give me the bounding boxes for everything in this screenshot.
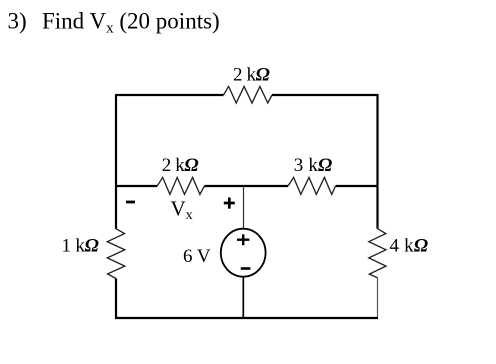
resistor R right 4k zigzag	[369, 229, 386, 278]
minus sign Vx polarity	[126, 201, 135, 204]
svg-text:2 kΩ: 2 kΩ	[162, 155, 199, 176]
resistor R mid-left 2k zigzag	[157, 177, 204, 194]
svg-text:Find Vx (20 points): Find Vx (20 points)	[42, 9, 220, 37]
svg-text:2 kΩ: 2 kΩ	[233, 64, 270, 85]
minus sign inside source	[241, 267, 251, 270]
svg-text:4 kΩ: 4 kΩ	[390, 236, 429, 257]
wire right lower (thin)	[377, 278, 379, 317]
svg-text:6 V: 6 V	[183, 246, 211, 267]
plus sign inside source	[237, 234, 249, 245]
wire top	[116, 94, 378, 96]
resistor R top 2k zigzag	[224, 86, 273, 103]
resistor R left 1k zigzag	[107, 229, 125, 279]
wire right vertical	[376, 94, 378, 229]
plus sign Vx polarity	[224, 198, 235, 209]
wire source top stub	[243, 186, 245, 229]
resistor R mid-right 3k zigzag	[288, 177, 336, 194]
wire middle horizontal	[116, 185, 378, 187]
voltage source V1 circle	[221, 229, 266, 277]
wire bottom	[115, 317, 378, 319]
svg-text:3): 3)	[8, 9, 27, 34]
svg-text:1 kΩ: 1 kΩ	[62, 235, 99, 256]
wire left vertical	[115, 94, 117, 318]
wire source bottom stub	[242, 277, 244, 318]
svg-text:3 kΩ: 3 kΩ	[294, 155, 333, 176]
